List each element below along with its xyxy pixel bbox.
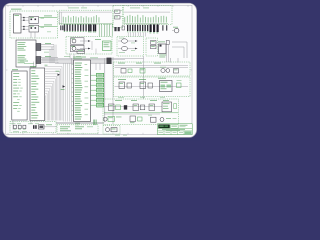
wire: [167, 45, 169, 63]
voltage regulator U9: [39, 125, 45, 129]
diode D6: [56, 71, 61, 76]
capacitor C8: [114, 27, 119, 31]
section outline: oscillator: [113, 6, 123, 28]
wire bus: [124, 23, 168, 25]
label: between rows: [118, 96, 165, 99]
diode D5: [166, 41, 169, 45]
wires: MCU right pins: [91, 75, 97, 105]
section outline: bottom-left group: [10, 121, 56, 133]
relay K3 group: [148, 115, 177, 122]
wire: [56, 122, 104, 123]
capacitor C5: [151, 41, 157, 45]
optocoupler OK4: [133, 104, 145, 111]
wire: [115, 86, 189, 88]
section outline: filter: [146, 38, 158, 56]
title block bottom cells: [159, 131, 192, 135]
wires below RN2: [128, 32, 146, 36]
label: row1 nets: [118, 62, 161, 65]
net label (green bars): [93, 120, 96, 126]
optocoupler OK2: [139, 79, 153, 88]
wire bus (vertical, x=113): [112, 57, 144, 124]
transistor Q3 group: [130, 116, 142, 123]
capacitor C6: [151, 45, 157, 49]
wire bus (vertical at x=105): [104, 58, 106, 122]
wire net GND: [39, 25, 57, 27]
section outline: drivers: [66, 37, 112, 55]
IC U2: [95, 39, 111, 50]
net labels (vertical) group A: [59, 12, 112, 24]
title block cell: name: [180, 125, 188, 127]
diode bridge D1: [29, 17, 44, 24]
optocoupler OK3: [109, 104, 121, 111]
label: section title: [68, 7, 87, 10]
LED LED2 pair: [160, 67, 170, 73]
op-amp IC3A: [118, 38, 138, 44]
resistor R11: [111, 128, 117, 132]
resistor R14: [121, 69, 132, 74]
wire: [41, 43, 54, 49]
junction cluster: [107, 58, 112, 64]
label: section title: [130, 7, 149, 10]
label: under MCU: [75, 123, 80, 125]
capacitor C4: [18, 125, 21, 130]
section outline: LED group: [103, 126, 120, 135]
wire: [21, 17, 29, 21]
component (dark): [124, 105, 127, 109]
IC U4: [158, 42, 166, 58]
wire: [45, 124, 58, 126]
optocoupler OK1: [118, 79, 132, 88]
capacitor C5: [23, 125, 26, 130]
section outline: power supply: [10, 11, 58, 38]
section outline: outputs row 2: [114, 77, 191, 97]
title block text: url: [162, 129, 185, 131]
wire: [104, 106, 162, 108]
label: connector pin names: [18, 42, 27, 63]
resistor array RN1 (row of resistors): [64, 24, 96, 32]
wire: [13, 120, 31, 130]
label: bottom row nets: [11, 122, 40, 125]
title block cell: revision: [171, 124, 179, 128]
wire bus (horizontal): [42, 59, 112, 64]
capacitor C2: [115, 16, 123, 19]
resistor R15: [140, 69, 145, 74]
title block frame: [158, 124, 193, 135]
wires: nets down to drivers: [99, 24, 112, 37]
connector X1: [14, 14, 22, 33]
connector USB2: [36, 57, 41, 64]
IC U7: [158, 78, 172, 92]
wire: [70, 41, 96, 59]
transistor T2: [71, 45, 91, 51]
IC U6 (right): [30, 66, 45, 120]
connector USB1: [36, 44, 41, 51]
label: bus nets: [44, 32, 81, 58]
IC U8: [162, 102, 177, 112]
label: bottom notes: [13, 130, 27, 133]
buzzer SP1 group: [103, 116, 121, 121]
power jack CON2: [172, 27, 179, 33]
wire bus (vertical, center): [64, 63, 70, 121]
capacitor C3: [14, 125, 17, 130]
crystal Q1: [115, 10, 123, 13]
wire: [41, 56, 58, 62]
IC U1 (MCU): [73, 57, 98, 122]
wire bus (vertical, right): [144, 56, 179, 99]
transistor T1: [71, 38, 91, 44]
wire: [50, 45, 58, 64]
section outline: top labels A: [59, 10, 113, 24]
IC U5 (left): [12, 69, 27, 120]
IC U3: [77, 49, 85, 53]
label: power section title: [11, 8, 22, 11]
wire: [31, 32, 35, 38]
section outline: comparators: [117, 37, 144, 57]
section outline: top labels C: [124, 6, 173, 25]
logo OLIMEX: [158, 124, 170, 128]
wire: [96, 63, 100, 70]
label: frame bottom marks: [115, 134, 127, 137]
diode D3: [61, 85, 66, 90]
wire: [104, 113, 178, 114]
wire: [72, 58, 74, 122]
capacitor C7 (polarized): [33, 125, 37, 129]
capacitor C9 pair: [60, 25, 63, 30]
resistor array RN2 (row of resistors): [122, 24, 167, 33]
label: row3 nets: [115, 99, 169, 102]
wire bus: [59, 23, 113, 25]
connector group outline: [16, 40, 36, 67]
op-amp IC3B: [118, 46, 138, 53]
diode bridge D2: [29, 25, 44, 32]
net label boxes (right of MCU): [97, 73, 104, 107]
section outline: jumpers table: [57, 125, 98, 134]
resistor network R20: [149, 104, 155, 111]
wire: [115, 66, 189, 68]
section outline: outputs row 3: [103, 99, 179, 125]
resistor R17: [177, 80, 182, 88]
section outline: outputs row 1: [114, 62, 191, 76]
wire: [21, 26, 29, 30]
net labels (vertical) group C: [124, 12, 170, 23]
wires: U6 pin nets bus ripper: [45, 65, 63, 121]
label: above left ICs: [20, 61, 34, 68]
resistor R16: [174, 69, 179, 74]
wire: [172, 42, 187, 58]
wire net VIN: [39, 16, 57, 18]
LED LED1: [106, 128, 110, 132]
